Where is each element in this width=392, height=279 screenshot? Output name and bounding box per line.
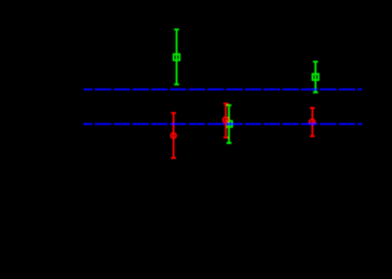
red circle marker 2 [223, 117, 228, 122]
red circle marker 3 [310, 119, 315, 124]
red data series (circles with error bars) [171, 104, 315, 158]
green error bar 2 [313, 62, 318, 93]
green square marker 2 [313, 74, 319, 80]
green square marker 1 [174, 54, 180, 60]
red error bar 1 [171, 113, 176, 158]
red circle marker 1 [171, 133, 176, 138]
blue dashed horizontal line (upper) [83, 88, 362, 90]
green square marker 3 [226, 121, 232, 127]
blue dashed horizontal line (lower) [83, 123, 362, 125]
red error bar 3 [310, 108, 315, 136]
green error bar 1 [174, 29, 179, 84]
green error bar 3 [227, 105, 232, 143]
green data series (squares with error bars) [174, 29, 319, 143]
red error bar 2 [223, 104, 228, 138]
